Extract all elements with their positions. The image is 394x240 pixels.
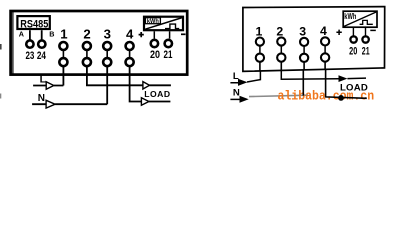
svg-text:3: 3	[299, 24, 306, 38]
meter case M1 (left diagram)	[11, 11, 188, 75]
N supply wire	[32, 74, 107, 104]
svg-text:1: 1	[60, 27, 67, 42]
terminal A stem	[29, 30, 31, 39]
N arrow (open)	[46, 100, 55, 108]
kWh box diagonal (right)	[344, 12, 376, 26]
LOAD arrow (filled, right)	[339, 75, 348, 82]
pulse waveform symbol (right)	[360, 20, 373, 24]
svg-text:2: 2	[276, 24, 283, 38]
terminal 21 circle (right)	[362, 36, 368, 42]
LOAD bottom arrow (open)	[141, 98, 149, 105]
svg-text:kWh: kWh	[344, 12, 356, 21]
L arrow (open)	[46, 82, 54, 90]
terminal 20 stem (right)	[352, 28, 354, 36]
meter case M2 (right diagram)	[243, 7, 385, 72]
wire terminal 4 to LOAD (right bottom)	[326, 70, 367, 99]
plus polarity mark	[139, 32, 144, 37]
svg-text:LOAD: LOAD	[340, 83, 368, 94]
terminal 21 stem	[169, 31, 171, 38]
svg-text:4: 4	[126, 27, 134, 42]
scan speck at image left edge (lower)	[0, 94, 1, 99]
terminal 2 circles and stem (right)	[277, 37, 285, 70]
minus polarity mark	[181, 33, 186, 35]
svg-text:N: N	[38, 93, 45, 104]
kWh pulse output box (right)	[343, 11, 377, 27]
scan speck at image left edge	[0, 44, 2, 50]
svg-text:LOAD: LOAD	[144, 89, 170, 99]
terminal 21 stem (right)	[365, 28, 367, 36]
wire terminal 2 to LOAD (right top)	[281, 71, 366, 80]
N wire riser at terminal 3 (right)	[302, 70, 304, 95]
terminal 21 circle	[165, 40, 172, 47]
terminal 1 circles and stem	[59, 42, 67, 74]
minus polarity mark (right)	[370, 29, 376, 31]
LOAD top arrow (open)	[143, 82, 150, 89]
junction dot on load wire	[338, 95, 344, 101]
meter case M1 inner-left double line	[12, 12, 14, 74]
svg-text:1: 1	[255, 25, 262, 39]
terminal A circle	[26, 40, 33, 47]
svg-text:A: A	[19, 29, 24, 38]
terminal 3 circles and stem (right)	[300, 38, 308, 70]
wire terminal 4 to LOAD (bottom)	[130, 74, 171, 102]
L supply wire	[33, 74, 63, 86]
terminal 20 circle (right)	[350, 36, 356, 42]
svg-text:kWh: kWh	[147, 18, 159, 25]
L supply wire (right)	[230, 71, 260, 83]
terminal 20 stem	[153, 31, 155, 38]
terminal 1 circles and stem (right)	[256, 38, 264, 71]
kWh sub-box	[145, 18, 160, 24]
svg-text:N: N	[233, 87, 240, 98]
terminal B stem	[41, 30, 43, 39]
pulse waveform symbol	[165, 24, 179, 29]
svg-text:20: 20	[349, 46, 357, 58]
svg-text:21: 21	[164, 49, 173, 61]
terminal 20 circle	[151, 40, 158, 47]
kWh pulse output box	[144, 17, 183, 31]
RS485 module box	[17, 16, 49, 29]
svg-text:24: 24	[37, 50, 46, 62]
svg-text:RS485: RS485	[20, 18, 48, 30]
kWh box diagonal	[145, 18, 182, 30]
terminal B circle	[38, 40, 45, 47]
svg-text:21: 21	[362, 46, 370, 58]
N wire gray segment (right, under watermark)	[249, 95, 308, 96]
N arrow (filled, right)	[240, 96, 249, 103]
terminal 4 circles and stem (right)	[321, 37, 329, 70]
svg-text:23: 23	[25, 50, 34, 62]
svg-text:B: B	[49, 30, 54, 39]
svg-text:4: 4	[320, 24, 327, 38]
terminal 3 circles and stem	[103, 42, 111, 74]
svg-text:3: 3	[104, 27, 111, 42]
svg-text:20: 20	[150, 49, 160, 61]
L arrow (filled, right)	[238, 79, 248, 86]
plus polarity mark (right)	[336, 30, 341, 35]
N supply wire (right, black part)	[230, 98, 240, 100]
svg-text:L: L	[233, 71, 239, 82]
terminal 4 circles and stem	[126, 42, 134, 74]
svg-text:2: 2	[83, 27, 90, 42]
wire terminal 2 to LOAD (top)	[87, 74, 171, 85]
terminal 2 circles and stem	[83, 42, 91, 74]
